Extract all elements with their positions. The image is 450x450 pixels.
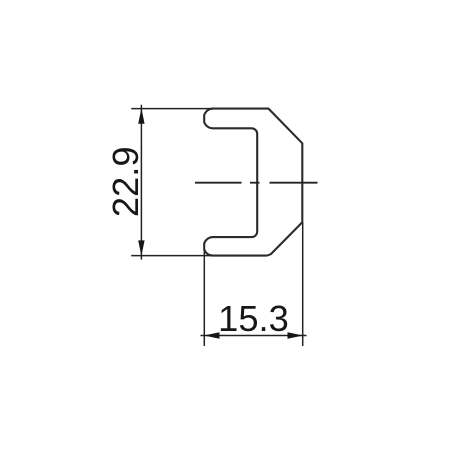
svg-text:22.9: 22.9 <box>105 146 146 217</box>
svg-text:15.3: 15.3 <box>218 298 289 339</box>
